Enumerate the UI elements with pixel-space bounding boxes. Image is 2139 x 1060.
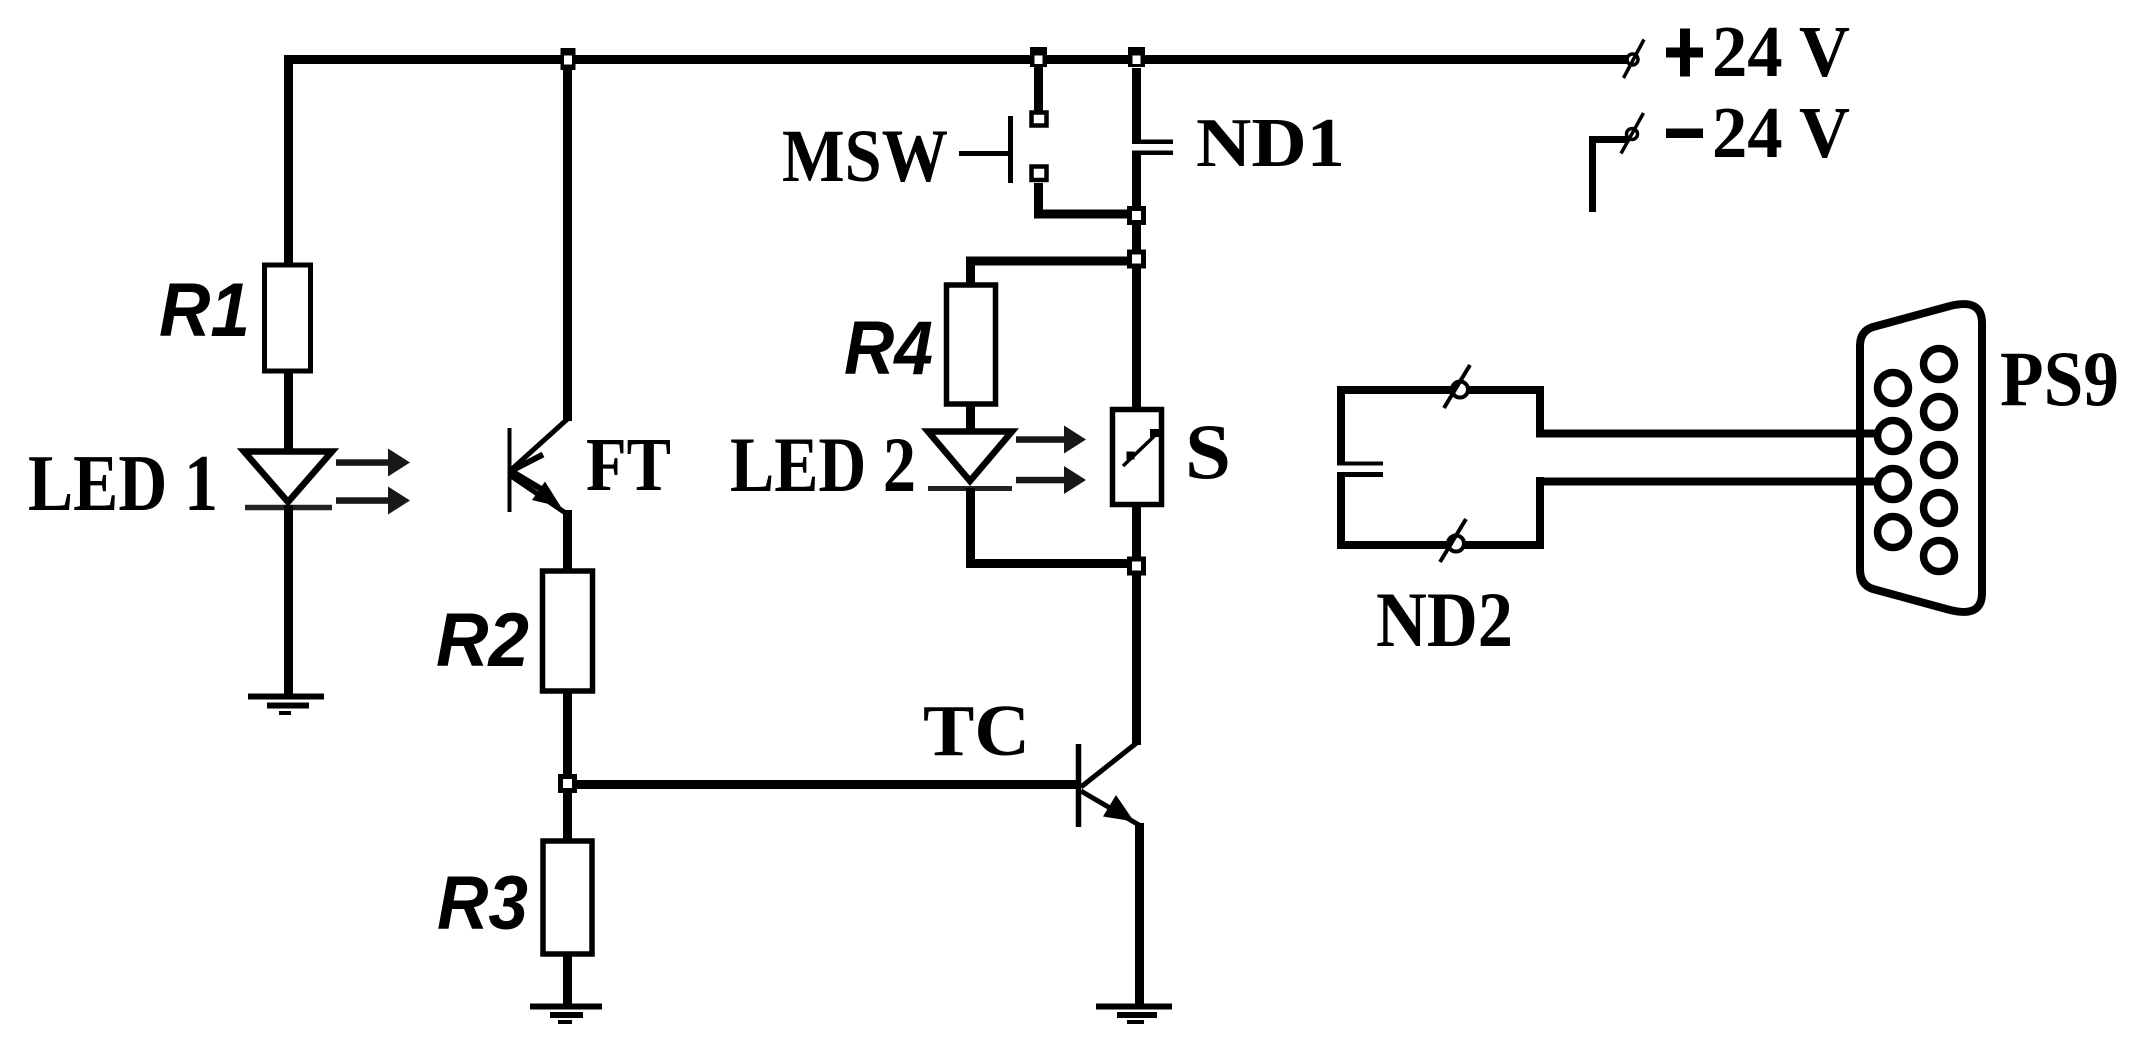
wire R2 to node B bbox=[563, 691, 572, 780]
box ND2 bbox=[1337, 386, 1544, 549]
LED1 emission arrow 1 bbox=[336, 449, 410, 477]
node F: junction of R4 branch and S branch bbox=[1127, 250, 1146, 269]
wire LED2 cathode to node G bbox=[966, 488, 1128, 568]
wire FT emitter to R2 bbox=[563, 510, 572, 572]
wire R3 to ground bbox=[563, 954, 572, 1006]
node B: junction R2/R3/TC base bbox=[558, 774, 577, 793]
node A: junction of top rail and FT collector bbox=[561, 48, 576, 70]
wire node B to R3 bbox=[563, 791, 572, 842]
node C: junction of top rail and MSW branch bbox=[1030, 47, 1047, 67]
node E: junction of top rail and ND1 branch bbox=[1128, 47, 1145, 67]
ground under R3 bbox=[530, 1007, 602, 1023]
svg-text:R1: R1 bbox=[159, 268, 250, 353]
svg-text:ND2: ND2 bbox=[1376, 576, 1513, 663]
svg-text:R3: R3 bbox=[437, 861, 528, 946]
wire -24V stub bbox=[1589, 136, 1627, 212]
label -24 V bbox=[1666, 92, 1850, 173]
terminal +24V bbox=[1624, 40, 1645, 79]
connector on ND2 top edge bbox=[1444, 365, 1470, 408]
svg-text:MSW: MSW bbox=[782, 115, 948, 198]
ground under LED1 bbox=[248, 697, 324, 714]
LED LED2 bbox=[928, 432, 1012, 489]
wire S to node G bbox=[1132, 504, 1141, 558]
LED2 emission arrow 1 bbox=[1016, 426, 1086, 454]
wire LED1 cathode to ground bbox=[284, 505, 293, 694]
wire node F to R4 top bbox=[966, 257, 1128, 286]
svg-text:S: S bbox=[1185, 408, 1231, 495]
wire node B to TC base bbox=[575, 780, 1076, 789]
terminal -24V bbox=[1621, 113, 1644, 154]
photodetector S bbox=[1113, 410, 1162, 505]
ground under TC bbox=[1096, 1007, 1172, 1023]
svg-text:R4: R4 bbox=[844, 306, 933, 391]
connector on ND2 bottom edge bbox=[1440, 519, 1466, 562]
transistor FT (phototransistor) bbox=[510, 419, 568, 514]
resistor R3 bbox=[543, 841, 592, 954]
wire TC emitter to ground bbox=[1135, 823, 1144, 1004]
capacitor plates in ND2 left side bbox=[1337, 464, 1383, 475]
wire FT collector drop bbox=[563, 69, 572, 421]
svg-text:FT: FT bbox=[586, 423, 671, 507]
svg-text:R2: R2 bbox=[436, 598, 529, 683]
wire node D to node F bbox=[1132, 224, 1141, 251]
switch MSW contact 2 bbox=[1032, 167, 1047, 181]
LED LED1 bbox=[244, 452, 332, 508]
wire ND1 to node D bbox=[1132, 155, 1141, 208]
switch MSW actuator stem bbox=[959, 151, 1008, 156]
wire R1 to LED1 bbox=[284, 370, 293, 452]
svg-text:TC: TC bbox=[923, 690, 1030, 771]
wire node E to ND1 bbox=[1132, 68, 1141, 144]
wire left drop from rail to R1 bbox=[284, 55, 293, 266]
wire ND2 to PS9 upper pin bbox=[1536, 430, 1876, 438]
transistor TC bbox=[1079, 743, 1140, 827]
wire node G to TC collector bbox=[1132, 575, 1141, 745]
svg-text:24 V: 24 V bbox=[1712, 11, 1850, 92]
wire R4 to LED2 bbox=[966, 404, 975, 433]
wire node C to MSW contact 1 bbox=[1034, 66, 1043, 111]
wire top +24V rail bbox=[284, 55, 1627, 64]
svg-text:PS9: PS9 bbox=[2000, 335, 2119, 422]
LED1 emission arrow 2 bbox=[336, 487, 410, 515]
wire node F to S bbox=[1132, 268, 1141, 411]
node D: junction MSW/ND1 bbox=[1127, 206, 1146, 225]
switch MSW actuator bar bbox=[1008, 116, 1013, 183]
resistor R1 bbox=[265, 265, 311, 371]
node G: junction S/LED2/TC collector bbox=[1127, 557, 1146, 576]
svg-text:LED 2: LED 2 bbox=[730, 421, 916, 508]
PS9 pins right column (pins 1-5) bbox=[1924, 349, 1955, 572]
PS9 pins left column (pins 6-9) bbox=[1878, 373, 1909, 548]
wire ND2 to PS9 lower pin bbox=[1536, 478, 1876, 486]
connector PS9 body (DB9 shell) bbox=[1860, 304, 1982, 612]
wire MSW contact 2 to node D bbox=[1039, 183, 1137, 214]
svg-text:ND1: ND1 bbox=[1196, 105, 1345, 182]
svg-text:LED 1: LED 1 bbox=[28, 440, 218, 528]
LED2 emission arrow 2 bbox=[1016, 466, 1086, 494]
label +24 V bbox=[1666, 11, 1850, 92]
switch MSW contact 1 bbox=[1032, 113, 1047, 126]
contact ND1 (capacitor-style plates) bbox=[1132, 142, 1173, 153]
resistor R4 bbox=[947, 285, 996, 404]
svg-text:24 V: 24 V bbox=[1712, 92, 1850, 173]
resistor R2 bbox=[543, 571, 593, 691]
